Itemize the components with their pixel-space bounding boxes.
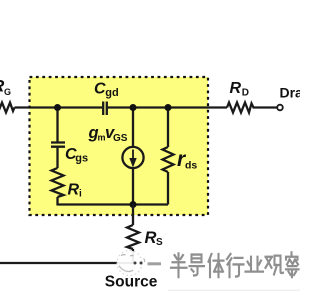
svg-text:Source: Source	[105, 274, 158, 291]
capacitor Cgs	[51, 143, 65, 147]
半	[171, 253, 187, 277]
svg-text:Drain: Drain	[280, 85, 301, 101]
svg-text:R: R	[145, 229, 157, 247]
行	[227, 254, 244, 277]
drain terminal	[277, 105, 283, 111]
junction node rds top	[165, 104, 172, 111]
intrinsic-model dashed yellow box	[30, 77, 209, 215]
导	[190, 255, 205, 276]
svg-text:R: R	[68, 181, 80, 198]
wire Cgd to RD	[108, 106, 227, 108]
junction node gate	[54, 104, 61, 111]
wire top rail to current source	[132, 108, 134, 148]
resistor rds	[163, 147, 174, 172]
察	[286, 252, 299, 277]
svg-text:D: D	[242, 88, 249, 99]
bottom rail wire	[58, 203, 169, 205]
svg-text:i: i	[79, 189, 82, 200]
体	[209, 254, 224, 277]
wire RD to drain terminal	[254, 106, 277, 108]
svg-text:ds: ds	[185, 160, 197, 172]
dashed border of intrinsic box	[30, 77, 209, 215]
wire RS to source rail	[132, 249, 134, 263]
resistor RD	[227, 103, 254, 113]
wire bottom rail to RS	[132, 205, 134, 226]
wire Cgs to Ri	[56, 148, 58, 168]
current source gmvGS	[122, 147, 143, 168]
svg-text:R: R	[230, 80, 242, 97]
svg-text:G: G	[4, 87, 11, 97]
watermark logo circle	[117, 251, 145, 276]
svg-text:GS: GS	[113, 133, 128, 144]
resistor Ri	[52, 168, 64, 197]
wire top rail to rds	[167, 108, 169, 148]
wire gate to Cgd	[15, 106, 103, 108]
junction node drain-internal top	[130, 104, 137, 111]
watermark dash	[148, 262, 162, 265]
junction node source-internal bottom	[130, 201, 137, 208]
capacitor Cgd	[103, 102, 107, 116]
wire rds to bottom rail	[167, 172, 169, 205]
wire Ri to bottom rail	[56, 197, 58, 206]
观	[266, 256, 284, 275]
source rail wire	[0, 262, 135, 264]
业	[246, 257, 264, 272]
resistor RG (cut off at left edge)	[0, 103, 15, 113]
faint separator line bottom right	[168, 290, 300, 291]
svg-text:S: S	[156, 237, 163, 248]
node gate-internal: wire down to Cgs	[56, 108, 58, 142]
svg-text:gd: gd	[105, 87, 118, 99]
svg-text:C: C	[94, 80, 106, 97]
resistor RS	[127, 225, 139, 249]
svg-text:gs: gs	[75, 153, 88, 165]
watermark text 半导体行业观察	[171, 252, 299, 277]
wire current source to bottom rail	[132, 168, 134, 205]
